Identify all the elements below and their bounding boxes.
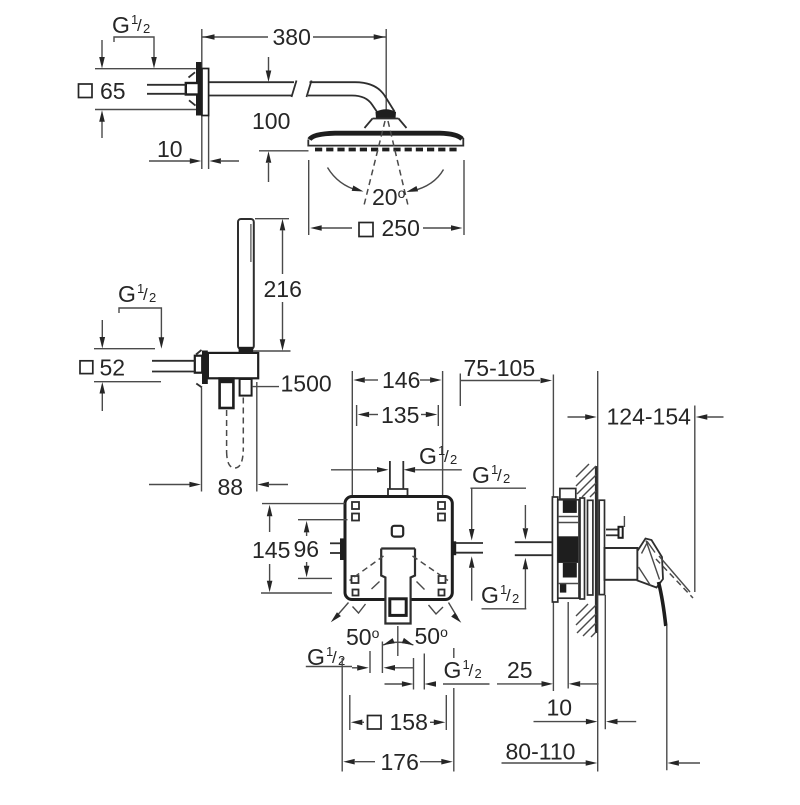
right port lower leader arrows <box>469 556 528 609</box>
label G1/2 bottom left <box>306 644 352 670</box>
dimension 145 reference lines <box>261 504 345 593</box>
holder supply pipe <box>152 350 202 388</box>
lever handle body <box>637 539 663 588</box>
svg-text:G: G <box>481 582 499 608</box>
flange plate edge extension line <box>208 116 210 169</box>
dimension 135 extension lines <box>357 405 439 426</box>
lever knob <box>390 599 406 616</box>
dimension 216 extension lines <box>253 219 291 351</box>
bottom right outlet leader <box>385 681 437 687</box>
hand shower holder block <box>208 353 258 378</box>
dimension 146 extension lines <box>352 371 442 496</box>
dimension 96 reference lines <box>298 520 348 579</box>
dimension 216 <box>264 219 302 351</box>
dimension 124-154 right extension line <box>694 406 696 593</box>
label G1/2 right port lower <box>481 582 526 609</box>
leader bracket G1/2 top-left <box>114 37 157 69</box>
svg-text:88: 88 <box>218 474 244 500</box>
side body rear plate <box>552 497 557 602</box>
escutcheon face extension line <box>604 595 606 729</box>
lever swing solid arrows 50deg <box>329 603 463 625</box>
dimension 100 <box>252 57 309 182</box>
bottom left outlet leader <box>352 665 413 671</box>
dimension 88 extension lines <box>202 382 257 492</box>
svg-text:1500: 1500 <box>281 371 332 397</box>
side body top block <box>560 489 576 500</box>
thread tail pipe <box>147 72 196 105</box>
svg-text:25: 25 <box>507 657 533 683</box>
lever centerline below knob <box>397 626 399 656</box>
svg-text:/: / <box>444 447 449 466</box>
valve top port stub <box>388 461 408 497</box>
svg-text:2: 2 <box>149 290 156 305</box>
label 1500 with leader <box>252 371 332 397</box>
dimension 124-154 <box>568 404 724 430</box>
finished wall line <box>597 371 599 772</box>
svg-text:100: 100 <box>252 108 290 134</box>
trim sleeve <box>605 548 638 580</box>
dimension 80-110 <box>502 739 701 766</box>
wall hatching lower <box>576 604 596 637</box>
lever tilt dashed lines inside box <box>350 556 449 614</box>
svg-text:2: 2 <box>512 591 519 606</box>
valve top port leader arrows <box>331 467 462 473</box>
svg-text:216: 216 <box>264 276 302 302</box>
leader bracket G1/2 mid-left <box>119 308 164 349</box>
dimension 146 <box>353 367 441 393</box>
svg-text:/: / <box>506 586 511 605</box>
dimension 158 <box>351 709 446 735</box>
diverter stem <box>606 516 624 538</box>
box corner screw squares <box>352 502 446 596</box>
valve cartridge shaft <box>381 549 415 624</box>
dimension 88 <box>149 474 288 500</box>
right port upper leader arrows <box>469 488 528 540</box>
svg-text:10: 10 <box>547 695 573 721</box>
dimension 250 extension lines <box>309 160 464 235</box>
valve left port <box>330 538 345 560</box>
dimension 380 <box>202 24 386 50</box>
dimension 96 arrows <box>294 521 320 577</box>
label G1/2 mid-left <box>118 281 156 307</box>
dimension 10 bottom <box>534 695 637 725</box>
svg-text:2: 2 <box>143 21 150 36</box>
svg-text:250: 250 <box>382 215 420 241</box>
box center square <box>392 526 403 537</box>
wall extension line top-left <box>201 29 203 169</box>
svg-text:146: 146 <box>382 367 420 393</box>
dimension 65 extension lines <box>95 69 202 110</box>
shower head mount <box>365 119 407 129</box>
svg-text:/: / <box>332 648 337 667</box>
shower arm G1/2 thread fitting <box>186 83 199 95</box>
shower hose dashed <box>227 398 244 469</box>
hand shower stick <box>238 219 254 353</box>
wall thick section line <box>595 466 598 633</box>
shower head nozzle dashes <box>315 148 457 152</box>
tilt range dashed lines <box>364 121 408 205</box>
body front extension line <box>567 602 569 689</box>
bottom outlet extension lines <box>370 642 424 690</box>
svg-text:80-110: 80-110 <box>506 739 576 765</box>
lever swing dashed line <box>656 556 693 598</box>
dimension 52 square label <box>80 355 125 381</box>
hose nipple left <box>220 379 234 408</box>
wall hatching upper <box>576 464 596 497</box>
svg-text:G: G <box>112 12 130 38</box>
side body mounting plate <box>580 498 585 599</box>
svg-text:10: 10 <box>157 136 183 162</box>
dimension 176 extension lines <box>342 648 454 772</box>
lever tip extension line <box>666 626 668 770</box>
side body main block <box>558 500 579 598</box>
svg-text:96: 96 <box>294 536 320 562</box>
svg-text:G: G <box>118 281 136 307</box>
label G1/2 bottom right <box>443 657 490 684</box>
valve rough-in box <box>345 497 452 600</box>
svg-text:52: 52 <box>100 355 126 381</box>
label G1/2 top-left <box>112 12 150 38</box>
lever blade <box>659 582 666 626</box>
svg-text:G: G <box>472 462 490 488</box>
dimension 135 <box>358 402 438 428</box>
dimension 25 <box>497 657 599 687</box>
shower arm wall escutcheon dark bar <box>196 62 202 116</box>
side body internals <box>558 501 579 593</box>
valve right port <box>452 541 483 555</box>
svg-text:380: 380 <box>273 24 311 50</box>
side escutcheon <box>599 500 604 594</box>
svg-text:2: 2 <box>450 452 457 467</box>
tilt curved arrow right <box>405 170 443 195</box>
shower head body <box>308 133 463 145</box>
dimension 176 <box>343 749 453 775</box>
svg-text:/: / <box>137 16 142 35</box>
dimension 158 extension lines <box>350 695 447 730</box>
shower head centerline <box>385 29 387 112</box>
svg-text:/: / <box>469 661 474 680</box>
svg-text:G: G <box>419 443 437 469</box>
svg-text:75-105: 75-105 <box>464 355 536 381</box>
svg-text:158: 158 <box>390 709 428 735</box>
side view supply stub <box>515 542 553 555</box>
dimension 10 wall flange <box>149 136 239 164</box>
shower head ball joint <box>376 109 397 118</box>
svg-text:2: 2 <box>475 666 482 681</box>
svg-text:145: 145 <box>252 537 290 563</box>
svg-text:/: / <box>497 466 502 485</box>
shower arm pipe <box>209 81 395 115</box>
label G1/2 valve top port <box>419 443 457 469</box>
svg-text:/: / <box>143 285 148 304</box>
hose nipple right <box>240 379 252 396</box>
holder G1/2 fitting <box>195 356 202 373</box>
svg-text:G: G <box>444 657 462 683</box>
dimension 52 extension lines <box>94 349 161 382</box>
dimension 250 <box>310 215 462 241</box>
swing angle arc arrows <box>382 638 415 648</box>
dimension 145 arrows <box>252 505 290 592</box>
label G1/2 right port upper <box>470 462 526 488</box>
tilt curved arrow left <box>328 168 365 195</box>
dimension 65 square label <box>79 78 126 104</box>
svg-text:124-154: 124-154 <box>607 404 692 430</box>
svg-text:2: 2 <box>503 471 510 486</box>
svg-text:65: 65 <box>100 78 126 104</box>
wall min line <box>552 375 554 692</box>
svg-text:135: 135 <box>381 402 419 428</box>
side body second plate <box>588 500 593 595</box>
dimension 52 arrows <box>100 320 106 411</box>
svg-text:176: 176 <box>381 749 419 775</box>
shower arm wall plate <box>202 69 209 116</box>
dimension 75-105 <box>460 355 552 406</box>
holder wall escutcheon dark bar <box>202 351 208 385</box>
dimension 65 arrows <box>99 40 105 138</box>
